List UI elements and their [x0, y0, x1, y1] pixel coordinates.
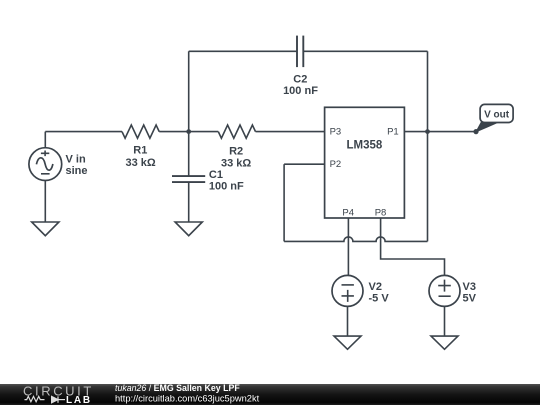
wire R2 to op-amp P3 — [256, 131, 325, 133]
ground below V3 — [431, 336, 458, 349]
svg-text:P2: P2 — [330, 159, 342, 170]
label R1 / 33 kΩ — [125, 145, 155, 169]
label V1: V in / sine — [66, 154, 88, 178]
voltage source V2 — [332, 275, 363, 306]
wire V2 to ground — [347, 306, 349, 336]
wire top rail left — [189, 50, 297, 52]
wire top rail right — [303, 50, 427, 52]
wire right rail down to output node — [427, 51, 429, 131]
label C1 / 100 nF — [209, 169, 244, 193]
svg-text:V in: V in — [66, 154, 86, 166]
svg-text:100 nF: 100 nF — [209, 181, 244, 193]
svg-text:-5 V: -5 V — [369, 293, 390, 305]
capacitor C1 — [172, 176, 205, 182]
svg-text:C1: C1 — [209, 169, 223, 181]
svg-text:http://circuitlab.com/c63juc5p: http://circuitlab.com/c63juc5pwn2kt — [115, 394, 260, 404]
ground below V1 — [32, 222, 59, 236]
wire V3 to ground — [444, 306, 446, 336]
footer bar — [0, 384, 540, 405]
op-amp U1 LM358 — [325, 107, 405, 218]
wire P8 down right to V3 — [381, 218, 445, 275]
svg-text:P3: P3 — [330, 126, 342, 137]
wire V1 top to main rail — [44, 132, 46, 148]
voltage source V1 — [29, 148, 62, 181]
wire R1 to R2 — [159, 131, 218, 133]
wire node B down — [427, 132, 429, 242]
svg-text:P1: P1 — [387, 126, 399, 137]
output terminal dot — [473, 129, 478, 134]
svg-text:5V: 5V — [463, 293, 477, 305]
wire C1 to ground — [188, 182, 190, 222]
svg-text:P4: P4 — [342, 208, 354, 219]
svg-text:tukan26 / EMG Sallen Key LPF: tukan26 / EMG Sallen Key LPF — [115, 383, 240, 393]
voltage source V3 — [429, 275, 460, 306]
node B (output junction) — [425, 129, 430, 134]
svg-text:P8: P8 — [375, 208, 387, 219]
wire node A down to C1 — [188, 132, 190, 177]
wire P4 down to V2 — [347, 218, 349, 275]
wire V1 to ground — [44, 181, 46, 223]
resistor R1 — [122, 125, 159, 138]
svg-text:R2: R2 — [229, 145, 243, 157]
svg-text:sine: sine — [66, 165, 88, 177]
label V2 / -5 V — [369, 281, 390, 305]
svg-text:C2: C2 — [293, 73, 307, 85]
label C2 / 100 nF — [283, 73, 318, 97]
label R2 / 33 kΩ — [221, 145, 251, 169]
svg-text:V2: V2 — [369, 281, 382, 293]
svg-text:100 nF: 100 nF — [283, 85, 318, 97]
flag V out box — [480, 104, 513, 122]
wire P1 to output terminal — [404, 131, 476, 133]
svg-text:R1: R1 — [133, 145, 147, 157]
svg-text:V3: V3 — [463, 281, 476, 293]
wire feedback bottom with hops — [284, 237, 427, 242]
svg-text:LM358: LM358 — [347, 140, 383, 152]
CircuitLab logo: resistor+diode squiggle — [25, 396, 66, 402]
resistor R2 — [218, 125, 255, 138]
ground below V2 — [334, 336, 361, 349]
node A (R1/R2/C1/C2 junction) — [186, 129, 191, 134]
svg-text:LAB: LAB — [66, 395, 92, 405]
wire node A up — [188, 51, 190, 131]
wire main rail to R1 — [45, 131, 122, 133]
ground below C1 — [175, 222, 202, 236]
wire feedback left vertical — [283, 164, 285, 241]
svg-text:V out: V out — [484, 110, 510, 121]
label V3 / 5V — [463, 281, 477, 305]
flag V out tail — [476, 122, 498, 132]
svg-text:33 kΩ: 33 kΩ — [125, 157, 155, 169]
svg-text:33 kΩ: 33 kΩ — [221, 158, 251, 170]
capacitor C2 — [297, 36, 303, 68]
wire feedback to P2 — [284, 163, 325, 165]
